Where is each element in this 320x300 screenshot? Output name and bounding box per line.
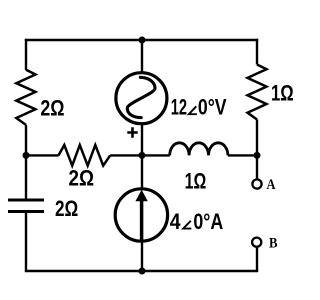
wire: right rail top segment (top-right corner to resistor) <box>256 39 258 65</box>
wire: bottom horizontal rail <box>25 270 258 272</box>
polarity plus sign of voltage source <box>127 127 137 137</box>
wire: right rail segment (resistor to middle node) <box>256 120 258 156</box>
svg-text:4: 4 <box>170 209 181 234</box>
capacitor 2Ω (left branch) bottom plate <box>8 210 44 213</box>
wire: stub from middle node down to terminal A <box>256 155 258 179</box>
wire: middle rail right segment (inductor to right rail) <box>228 154 257 156</box>
wire: current source top lead from center junction <box>141 155 143 190</box>
svg-text:2Ω: 2Ω <box>40 95 64 120</box>
wire: current source bottom lead to bottom rail <box>141 240 143 271</box>
angle symbol of 12∠0°V <box>189 106 197 114</box>
wire: left rail top segment (top-left corner down to resistor) <box>25 39 27 70</box>
capacitor 2Ω (left branch) top plate <box>8 199 44 202</box>
junction dot: right rail / middle wire node <box>254 152 261 159</box>
AC voltage source sine symbol <box>127 77 155 117</box>
junction dot: bottom rail / current source node <box>139 268 146 275</box>
wire: left rail middle segment (resistor to capacitor top plate) <box>25 125 27 199</box>
svg-text:1Ω: 1Ω <box>185 168 207 193</box>
current source arrow shaft <box>140 201 144 241</box>
svg-text:1Ω: 1Ω <box>271 80 294 105</box>
junction dot: top rail / source branch node <box>139 37 146 44</box>
terminal B (open circle) <box>252 238 261 247</box>
current source arrow head <box>135 190 147 202</box>
resistor 1Ω (right branch, vertical zigzag) <box>248 65 267 120</box>
current source 4∠0°A: circle <box>115 189 167 241</box>
wire: middle rail segment (middle resistor to center junction) <box>110 154 170 156</box>
resistor 2Ω (middle branch, horizontal zigzag) <box>59 145 111 166</box>
wire: voltage source top lead from top rail <box>141 40 143 74</box>
wire: voltage source bottom lead to center junction <box>141 123 143 155</box>
wire: left rail bottom segment (capacitor to bottom-left corner) <box>25 213 27 271</box>
svg-text:A: A <box>267 177 276 193</box>
svg-text:0°V: 0°V <box>198 95 227 120</box>
junction dot: left rail / middle wire node <box>23 152 30 159</box>
AC voltage source 12∠0°V: circle <box>116 73 167 124</box>
svg-text:2Ω: 2Ω <box>55 196 78 221</box>
wire: stub from terminal B down to bottom rail <box>256 247 258 271</box>
angle symbol of 4∠0°A <box>183 221 191 229</box>
svg-text:B: B <box>269 236 278 252</box>
wire: top horizontal rail <box>25 39 258 41</box>
terminal A (open circle) <box>252 179 261 188</box>
resistor 2Ω (left branch, vertical zigzag) <box>16 70 35 125</box>
wire: middle rail left segment (left rail to middle resistor) <box>26 154 59 156</box>
svg-text:12: 12 <box>171 95 187 120</box>
junction dot: center cross node <box>139 152 146 159</box>
svg-text:0°A: 0°A <box>193 209 223 234</box>
inductor 1Ω (middle branch, 3 humps) <box>170 143 228 156</box>
svg-text:2Ω: 2Ω <box>69 166 95 191</box>
